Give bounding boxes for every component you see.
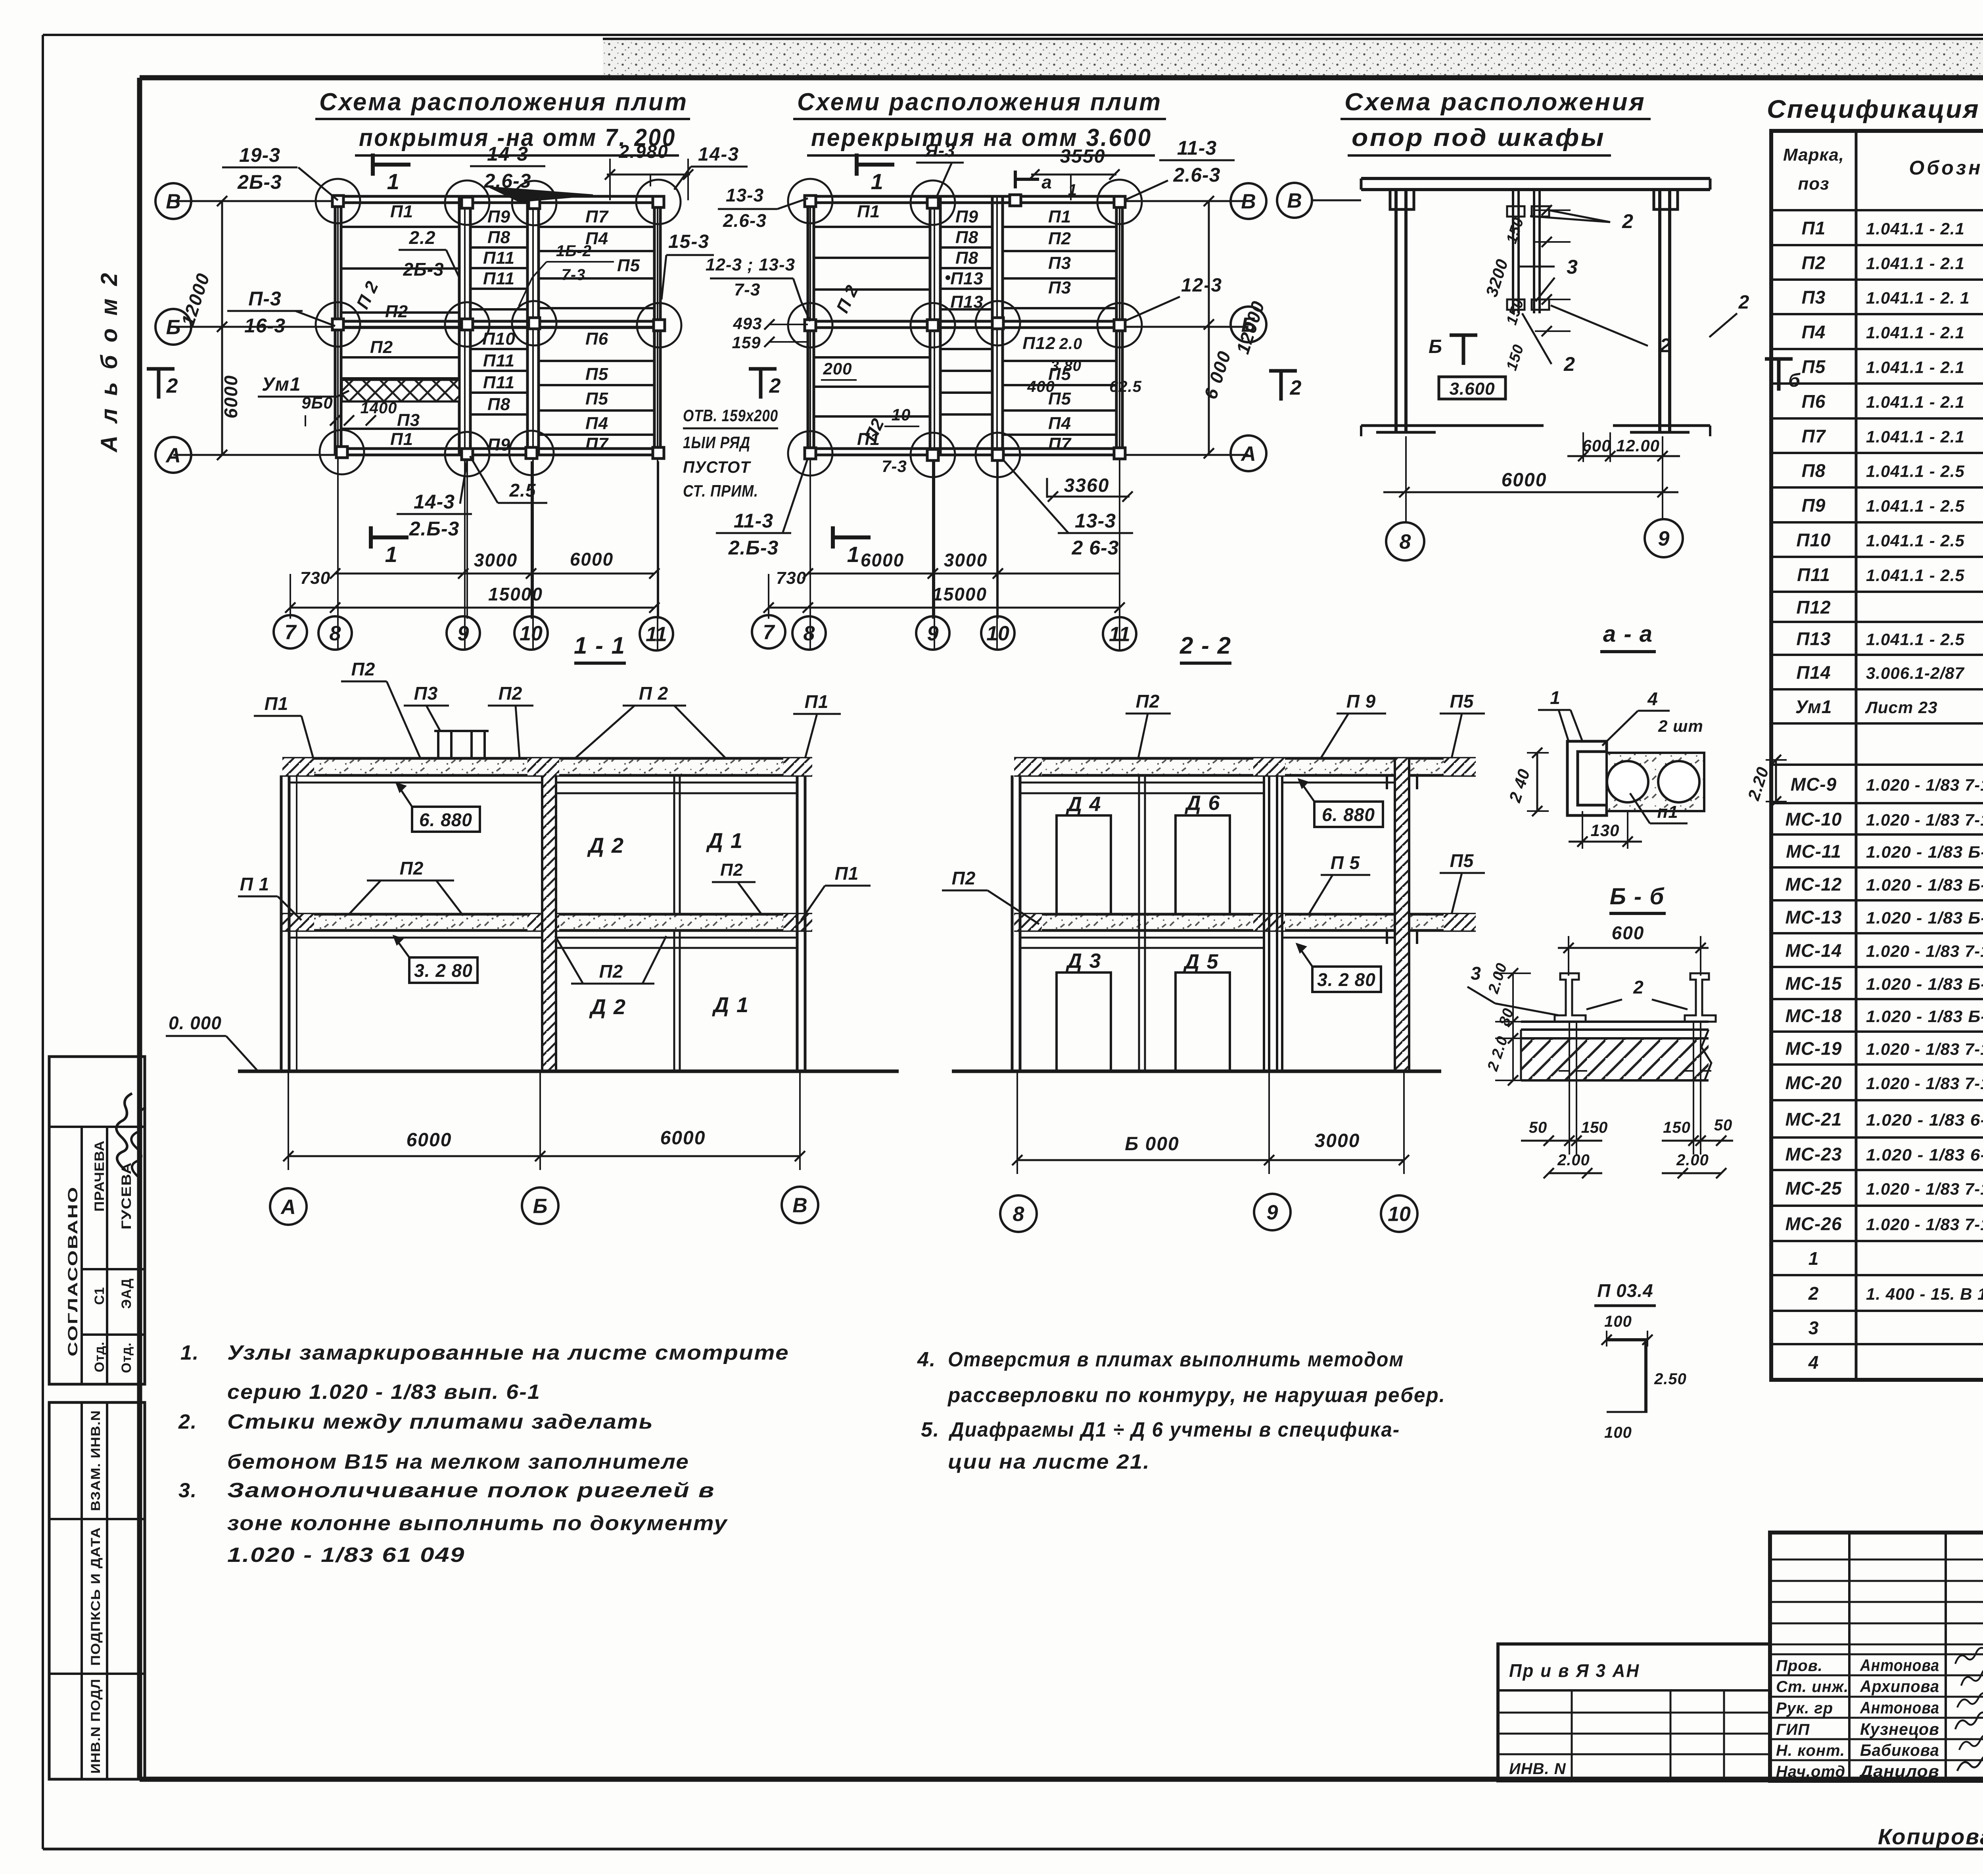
scheme 1 slab joint lines left bay (342, 226, 459, 228)
svg-text:П1: П1 (835, 863, 859, 884)
svg-text:П2: П2 (351, 659, 376, 679)
svg-text:2: 2 (1659, 334, 1672, 357)
svg-text:МС-12: МС-12 (1785, 874, 1842, 895)
section 1-1 floor slab band (282, 914, 812, 930)
svg-text:П9: П9 (487, 435, 510, 455)
svg-text:1.020 - 1/83 Б-1: 1.020 - 1/83 Б-1 (1866, 909, 1983, 927)
svg-text:10: 10 (520, 622, 543, 645)
main drawing frame (140, 75, 1983, 81)
section 2-2 door openings (1057, 815, 1111, 914)
scheme 2 slab joints right bay (1003, 226, 1116, 228)
svg-text:П7: П7 (1048, 434, 1072, 454)
scheme 2 node circles (788, 179, 832, 223)
svg-text:П4: П4 (1802, 322, 1826, 342)
svg-text:16-3: 16-3 (244, 315, 286, 337)
svg-text:6000: 6000 (1502, 470, 1547, 491)
section 2-2 left wall (1011, 775, 1014, 1071)
svg-text:П3: П3 (1048, 278, 1071, 297)
svg-text:62.5: 62.5 (1109, 378, 1142, 395)
svg-text:1.041.1 - 2.1: 1.041.1 - 2.1 (1866, 219, 1965, 238)
svg-text:2.50: 2.50 (1654, 1370, 1687, 1388)
svg-text:1.020 - 1/83 6-1: 1.020 - 1/83 6-1 (1866, 1111, 1983, 1129)
svg-text:1.020 - 1/83 7-1: 1.020 - 1/83 7-1 (1866, 942, 1983, 961)
svg-text:П1: П1 (857, 202, 880, 221)
svg-text:ОТВ. 159х200: ОТВ. 159х200 (683, 406, 778, 425)
section 1-1 middle wall hatched (542, 775, 556, 1071)
svg-text:П2: П2 (400, 858, 424, 879)
svg-text:ИНВ. N: ИНВ. N (1509, 1760, 1566, 1778)
svg-text:А: А (1240, 443, 1256, 466)
scheme 3 right column (1658, 190, 1661, 432)
svg-text:П 1: П 1 (240, 874, 269, 894)
section 2-2 elevation 6.880 (1314, 802, 1383, 827)
svg-text:3 80: 3 80 (1051, 358, 1082, 374)
svg-text:10: 10 (1388, 1203, 1411, 1226)
svg-text:П3: П3 (1048, 253, 1071, 273)
svg-text:П3: П3 (397, 410, 420, 430)
svg-text:Д 2: Д 2 (589, 995, 626, 1019)
svg-text:1.020 - 1/83 Б-1: 1.020 - 1/83 Б-1 (1866, 843, 1983, 861)
svg-text:1: 1 (1068, 181, 1078, 199)
svg-text:Узлы замаркированные на лис: Узлы замаркированные на листе смотрите (227, 1341, 789, 1364)
svg-text:2: 2 (1622, 210, 1634, 232)
svg-text:СОГЛАСОВАНО: СОГЛАСОВАНО (65, 1186, 81, 1356)
svg-text:2: 2 (166, 374, 179, 397)
svg-text:П8: П8 (487, 395, 510, 414)
svg-text:7-3: 7-3 (562, 266, 586, 284)
svg-text:1. 400 - 15. В 1. 410 - 05: 1. 400 - 15. В 1. 410 - 05 (1866, 1285, 1983, 1303)
svg-text:С1: С1 (92, 1287, 107, 1305)
sheet outer border (43, 34, 1983, 36)
svg-text:1ЫИ РЯД: 1ЫИ РЯД (683, 433, 750, 452)
svg-text:3360: 3360 (1064, 475, 1110, 496)
svg-text:493: 493 (733, 314, 762, 333)
svg-text:В: В (1241, 190, 1256, 213)
detail B-B bottom dims (1521, 1140, 1602, 1142)
svg-text:10: 10 (892, 405, 911, 424)
detail a-a dims (1536, 753, 1538, 811)
svg-text:1.: 1. (180, 1341, 199, 1364)
scheme 3 axis bubbles (1386, 522, 1424, 560)
svg-text:Пров.: Пров. (1776, 1657, 1823, 1675)
svg-text:П11: П11 (483, 351, 515, 370)
svg-text:МС-10: МС-10 (1785, 809, 1842, 830)
section 1-1 chimney (434, 730, 489, 732)
svg-text:3: 3 (1808, 1318, 1819, 1338)
scheme 3 top beam (1361, 177, 1710, 180)
svg-text:1.020 - 1/83 7-1: 1.020 - 1/83 7-1 (1866, 1180, 1983, 1198)
svg-text:Схеми расположения плит: Схеми расположения плит (797, 88, 1162, 116)
scheme 2 section mark T2 right (1269, 369, 1297, 373)
scheme 2 axis bubbles bottom (752, 615, 785, 648)
svg-text:П13: П13 (950, 269, 984, 288)
svg-text:1.020 - 1/83 Б-1: 1.020 - 1/83 Б-1 (1866, 975, 1983, 994)
svg-text:3550: 3550 (1060, 146, 1106, 167)
scheme 1 beam at axis B (rigel) (335, 320, 661, 323)
scheme 1 vertical dim 12000/6000 (221, 201, 223, 455)
svg-text:МС-13: МС-13 (1785, 907, 1842, 928)
scheme 1 column squares (332, 196, 343, 207)
svg-text:П11: П11 (483, 269, 515, 288)
svg-text:п1: п1 (1657, 802, 1678, 822)
section 1-1 axis bubbles (270, 1188, 307, 1225)
svg-text:Д 4: Д 4 (1066, 793, 1102, 816)
svg-text:2.00: 2.00 (1557, 1151, 1590, 1169)
svg-text:ГИП: ГИП (1776, 1721, 1810, 1738)
svg-text:6000: 6000 (660, 1128, 706, 1149)
svg-text:Нач.отд: Нач.отд (1776, 1763, 1845, 1780)
svg-text:П13: П13 (1796, 629, 1831, 649)
svg-text:7: 7 (763, 621, 775, 644)
svg-text:Д 2: Д 2 (587, 834, 624, 857)
svg-text:1.020 - 1/83 7-1: 1.020 - 1/83 7-1 (1866, 811, 1983, 829)
svg-text:Я-3: Я-3 (924, 140, 955, 161)
svg-text:П1: П1 (390, 202, 413, 221)
svg-text:1.020 - 1/83 Б-1: 1.020 - 1/83 Б-1 (1866, 876, 1983, 894)
svg-text:П14: П14 (1796, 662, 1831, 683)
svg-text:730: 730 (776, 568, 806, 588)
scheme 1 axis lines (173, 200, 335, 202)
svg-text:Д 1: Д 1 (712, 993, 749, 1017)
svg-text:В: В (166, 190, 181, 213)
svg-text:11: 11 (1109, 623, 1130, 646)
svg-text:ПРАЧЕВА: ПРАЧЕВА (92, 1140, 107, 1212)
svg-text:П5: П5 (1450, 850, 1474, 871)
section 2-2 bottom dims (1016, 1071, 1018, 1174)
section 2-2 axis bubbles (1000, 1195, 1037, 1232)
section 1-1 under-floor beams (289, 937, 542, 939)
svg-text:Д 6: Д 6 (1185, 792, 1221, 815)
svg-text:14-3: 14-3 (487, 143, 528, 165)
svg-text:5.: 5. (921, 1418, 940, 1441)
scheme 1 section mark 1 top (373, 163, 410, 167)
detail B-B slab top lines (1521, 1020, 1709, 1023)
svg-text:Отд.: Отд. (119, 1342, 134, 1373)
svg-text:8: 8 (1013, 1203, 1024, 1226)
section 1-1 right bay divider lower (673, 930, 675, 1071)
svg-text:11-3: 11-3 (1177, 137, 1217, 159)
svg-text:МС-14: МС-14 (1785, 940, 1842, 961)
svg-text:П2: П2 (1048, 229, 1071, 248)
scheme 2 beam axis 9 (929, 196, 932, 455)
svg-text:2.6-3: 2.6-3 (1173, 164, 1221, 186)
svg-text:П2: П2 (720, 860, 743, 880)
svg-text:9: 9 (458, 622, 469, 645)
section 1-1 right bay divider upper (673, 775, 675, 914)
svg-text:МС-9: МС-9 (1791, 774, 1837, 795)
svg-text:1 - 1: 1 - 1 (574, 632, 625, 659)
svg-text:МС-19: МС-19 (1785, 1038, 1842, 1059)
svg-text:опор под шкафы: опор под шкафы (1352, 124, 1605, 152)
svg-text:1.041.1 - 2.5: 1.041.1 - 2.5 (1866, 531, 1965, 550)
svg-text:9: 9 (927, 622, 939, 645)
svg-text:б: б (1788, 370, 1801, 391)
scheme 1 monolithic strip Um1 hatch (342, 380, 459, 401)
svg-text:1: 1 (871, 169, 884, 194)
detail B-B hatched slab (1521, 1038, 1709, 1080)
svg-text:1: 1 (385, 542, 398, 567)
svg-text:СТ. ПРИМ.: СТ. ПРИМ. (683, 481, 758, 500)
svg-text:15-3: 15-3 (668, 231, 710, 252)
scheme 2 mark a top (1014, 171, 1017, 188)
svg-text:Ум1: Ум1 (1795, 696, 1832, 717)
svg-text:19-3: 19-3 (239, 144, 280, 166)
svg-text:рассверловки по контуру, н: рассверловки по контуру, не нарушая ребе… (947, 1384, 1446, 1407)
scheme 1 section mark T2 left (147, 367, 175, 371)
svg-text:МС-26: МС-26 (1785, 1214, 1842, 1234)
svg-text:П2: П2 (385, 302, 408, 321)
svg-text:Д 1: Д 1 (706, 829, 743, 853)
scheme 1 slab joint lines right bay (539, 226, 654, 228)
svg-text:Схема расположения: Схема расположения (1344, 88, 1646, 116)
svg-text:МС-20: МС-20 (1785, 1072, 1842, 1093)
scheme 2 section mark 1 bottom (833, 535, 871, 539)
scheme 1 section mark 1 bottom (371, 535, 408, 539)
scheme 1 section mark T2 right (749, 367, 777, 371)
svg-text:а - а: а - а (1603, 621, 1653, 647)
signature squiggles margin (108, 1092, 141, 1170)
svg-text:10: 10 (986, 622, 1009, 645)
svg-text:2.980: 2.980 (618, 141, 668, 162)
svg-text:2.Б-3: 2.Б-3 (409, 518, 460, 540)
svg-text:12-3 ; 13-3: 12-3 ; 13-3 (706, 255, 795, 274)
svg-text:ИНВ.N ПОДЛ: ИНВ.N ПОДЛ (88, 1678, 103, 1774)
svg-text:МС-15: МС-15 (1785, 973, 1842, 994)
svg-text:МС-25: МС-25 (1785, 1178, 1842, 1199)
svg-text:2: 2 (1290, 376, 1302, 399)
svg-text:1.020 - 1/83 7-1: 1.020 - 1/83 7-1 (1866, 1215, 1983, 1234)
svg-text:бетоном В15 на мелком запол: бетоном В15 на мелком заполнителе (227, 1450, 689, 1473)
svg-text:Отверстия в плитах выполни: Отверстия в плитах выполнить методом (948, 1348, 1404, 1371)
section 1-1 elevation 6.880 (412, 807, 480, 832)
svg-text:1.041.1 - 2.1: 1.041.1 - 2.1 (1866, 358, 1965, 377)
svg-text:П4: П4 (1048, 414, 1071, 433)
scheme 2 slab joints middle bay (940, 226, 992, 228)
svg-text:1: 1 (387, 169, 400, 194)
detail B-B anchors below (1569, 1022, 1570, 1155)
svg-text:П9: П9 (955, 207, 978, 226)
svg-text:ВЗАМ. ИНВ.N: ВЗАМ. ИНВ.N (88, 1410, 103, 1511)
scheme 1 slab joint lines middle bay (470, 226, 527, 228)
svg-text:400: 400 (1027, 378, 1055, 395)
svg-text:поз: поз (1798, 174, 1829, 194)
svg-text:Кузнецов: Кузнецов (1860, 1720, 1939, 1738)
svg-text:2.5: 2.5 (509, 480, 536, 501)
svg-text:1.020 - 1/83 61 049: 1.020 - 1/83 61 049 (227, 1544, 465, 1567)
svg-text:1.041.1 - 2. 1: 1.041.1 - 2. 1 (1866, 289, 1970, 307)
title block signatures (1954, 1644, 1983, 1664)
svg-text:1.020 - 1/83 7-1: 1.020 - 1/83 7-1 (1866, 1074, 1983, 1093)
section 2-2 under-floor beams (1020, 937, 1264, 939)
scheme 1 beam axis 9 (458, 196, 461, 455)
svg-text:130: 130 (1590, 821, 1619, 840)
svg-text:П2: П2 (599, 961, 623, 982)
svg-text:Антонова: Антонова (1860, 1656, 1939, 1675)
svg-text:П5: П5 (1450, 691, 1474, 712)
svg-text:1Б-2: 1Б-2 (556, 242, 592, 260)
svg-text:2: 2 (1738, 292, 1750, 313)
svg-text:ПУСТОТ: ПУСТОТ (683, 458, 751, 476)
svg-text:П8: П8 (487, 228, 510, 247)
svg-text:50: 50 (1714, 1116, 1733, 1134)
privyazan block (1498, 1644, 1770, 1781)
svg-text:Марка,: Марка, (1783, 145, 1844, 165)
svg-text:1: 1 (847, 542, 860, 567)
svg-text:11: 11 (646, 623, 667, 646)
svg-text:Пр и в Я 3 АН: Пр и в Я 3 АН (1509, 1660, 1640, 1681)
svg-text:1: 1 (1550, 687, 1561, 708)
svg-text:Антонова: Антонова (1860, 1698, 1939, 1717)
svg-text:6. 880: 6. 880 (419, 809, 472, 830)
svg-text:Схема расположения плит: Схема расположения плит (319, 88, 688, 116)
svg-text:3000: 3000 (944, 550, 988, 570)
detail B-B left channel (1555, 973, 1586, 1022)
section 1-1 bottom dims (288, 1071, 289, 1170)
svg-text:8: 8 (1400, 531, 1411, 554)
svg-text:П10: П10 (1796, 530, 1831, 551)
svg-text:6000: 6000 (570, 549, 614, 570)
svg-text:П13: П13 (950, 292, 984, 312)
svg-text:2.Б-3: 2.Б-3 (728, 537, 779, 559)
svg-text:3. 2 80: 3. 2 80 (1317, 969, 1376, 990)
svg-text:7-3: 7-3 (882, 457, 907, 476)
svg-text:2: 2 (769, 374, 782, 397)
svg-text:А л ь б о м 2: А л ь б о м 2 (96, 270, 122, 453)
scheme 1 node circles (316, 179, 360, 223)
svg-text:П8: П8 (955, 228, 978, 247)
svg-text:7: 7 (285, 621, 297, 644)
svg-text:600: 600 (1582, 436, 1611, 455)
svg-text:П 9: П 9 (1346, 691, 1376, 712)
scheme 2 slab joints left bay (814, 226, 930, 228)
svg-text:1.041.1 - 2.5: 1.041.1 - 2.5 (1866, 462, 1965, 481)
svg-text:Ст. инж.: Ст. инж. (1776, 1678, 1849, 1696)
svg-text:8: 8 (804, 622, 815, 645)
section 2-2 under-roof beams (1020, 782, 1264, 784)
svg-text:П8: П8 (955, 248, 978, 268)
svg-text:Рук. гр: Рук. гр (1776, 1700, 1833, 1717)
title block verticals left part (1848, 1533, 1851, 1781)
svg-text:8: 8 (330, 622, 341, 645)
svg-text:МС-21: МС-21 (1785, 1109, 1842, 1130)
svg-text:Б 000: Б 000 (1125, 1134, 1179, 1155)
svg-text:2: 2 (1633, 977, 1644, 997)
scheme 2 section mark 1 top (857, 163, 894, 167)
svg-text:МС-18: МС-18 (1785, 1005, 1842, 1026)
svg-text:1.041.1 - 2.5: 1.041.1 - 2.5 (1866, 566, 1965, 585)
svg-text:0. 000: 0. 000 (169, 1013, 222, 1033)
svg-text:П9: П9 (487, 207, 510, 226)
table grid (1771, 131, 1983, 1380)
svg-text:2 шт: 2 шт (1658, 717, 1703, 735)
svg-text:П12: П12 (1796, 597, 1831, 618)
svg-text:1400: 1400 (361, 399, 397, 417)
scheme 3 axis bubble V (1277, 183, 1312, 218)
svg-text:4.: 4. (917, 1348, 936, 1371)
svg-text:14-3: 14-3 (414, 491, 455, 513)
svg-text:3.600: 3.600 (1449, 379, 1495, 399)
svg-text:П2: П2 (499, 683, 523, 704)
svg-text:П2: П2 (952, 868, 976, 888)
section 2-2 wall at axis 9 (1263, 775, 1265, 1071)
section 2-2 floor slab band (1014, 914, 1476, 930)
svg-text:Замоноличивание полок ригеле: Замоноличивание полок ригелей в (227, 1479, 715, 1502)
svg-text:П4: П4 (585, 414, 608, 433)
svg-text:4: 4 (1808, 1352, 1819, 1373)
section 1-1 left wall (280, 775, 283, 1071)
svg-text:П9: П9 (1802, 495, 1826, 516)
svg-text:П11: П11 (483, 373, 515, 392)
svg-text:2 6-3: 2 6-3 (1072, 537, 1119, 559)
svg-text:П-3: П-3 (248, 288, 281, 310)
svg-text:3000: 3000 (1315, 1130, 1360, 1151)
svg-text:6000: 6000 (407, 1130, 452, 1151)
detail B-B right channel (1685, 973, 1716, 1022)
svg-text:1.041.1 - 2.5: 1.041.1 - 2.5 (1866, 497, 1965, 515)
scheme 3 floor lines (1361, 424, 1544, 427)
svg-text:Ум1: Ум1 (262, 374, 301, 395)
svg-text:1.020 - 1/83 7-1: 1.020 - 1/83 7-1 (1866, 776, 1983, 794)
scheme 3 bottom dims (1405, 436, 1407, 522)
svg-text:Д 5: Д 5 (1183, 950, 1219, 973)
section 1-1 elevation 3.280 (409, 957, 478, 983)
svg-text:П 5: П 5 (1331, 852, 1360, 873)
svg-text:6. 880: 6. 880 (1322, 804, 1375, 825)
svg-text:Д 3: Д 3 (1066, 950, 1102, 973)
scheme 2 beam axis 10 (991, 196, 994, 455)
scheme 1 beam axis 10 (526, 196, 529, 455)
svg-text:1.041.1 - 2.1: 1.041.1 - 2.1 (1866, 393, 1965, 411)
svg-text:2.: 2. (178, 1410, 197, 1433)
svg-text:2: 2 (1808, 1283, 1819, 1304)
svg-text:2: 2 (1563, 353, 1576, 375)
svg-text:П 03.4: П 03.4 (1597, 1280, 1653, 1301)
svg-text:150: 150 (1663, 1119, 1691, 1136)
svg-text:3000: 3000 (474, 550, 518, 570)
svg-text:159: 159 (732, 333, 761, 352)
svg-text:1.020 - 1/83 6-1: 1.020 - 1/83 6-1 (1866, 1145, 1983, 1164)
svg-text:ЭАД: ЭАД (119, 1278, 134, 1309)
svg-text:1.041.1 - 2.1: 1.041.1 - 2.1 (1866, 428, 1965, 446)
svg-text:3.: 3. (178, 1479, 197, 1502)
scheme 2 vertical dims 6000/12000 (1208, 201, 1210, 453)
svg-text:Данилов: Данилов (1859, 1762, 1939, 1780)
svg-text:Обозначенне: Обозначенне (1909, 157, 1983, 179)
scheme 2 axis lines (1123, 200, 1248, 202)
scheme 2 beam at axis B (808, 320, 1123, 323)
svg-text:П2: П2 (1136, 691, 1160, 712)
svg-text:Н. конт.: Н. конт. (1776, 1742, 1845, 1759)
svg-text:П6: П6 (1802, 391, 1826, 412)
svg-text:Копировал: Копировал (1878, 1824, 1983, 1849)
section 2-2 inner wall 1 (1138, 775, 1140, 1071)
svg-text:Отд.: Отд. (92, 1341, 107, 1372)
svg-text:П 2: П 2 (639, 683, 668, 704)
svg-text:2Б-3: 2Б-3 (237, 171, 282, 193)
svg-text:П5: П5 (1802, 357, 1826, 377)
svg-text:2.0: 2.0 (1059, 335, 1083, 353)
svg-text:730: 730 (300, 568, 330, 588)
svg-text:6000: 6000 (861, 550, 904, 570)
svg-text:3: 3 (1567, 256, 1578, 278)
svg-text:МС-23: МС-23 (1785, 1144, 1842, 1164)
svg-text:100: 100 (1604, 1313, 1632, 1330)
svg-text:Б - б: Б - б (1610, 884, 1665, 909)
svg-text:9Б0: 9Б0 (301, 393, 333, 412)
svg-text:Лист 23: Лист 23 (1865, 698, 1938, 717)
svg-text:П8: П8 (1802, 460, 1826, 481)
svg-text:П5: П5 (585, 389, 608, 409)
